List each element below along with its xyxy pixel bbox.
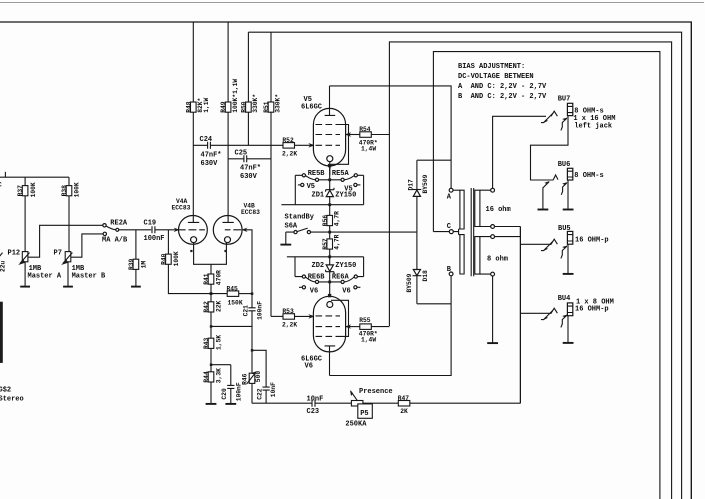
svg-text:C21: C21: [242, 305, 249, 317]
relay contact RE5A: [332, 170, 358, 181]
svg-text:1,1W: 1,1W: [203, 97, 210, 112]
resistor R39: [128, 230, 148, 286]
wire D18 to B: [417, 303, 451, 305]
svg-text:4,7R: 4,7R: [333, 234, 340, 249]
svg-text:Master A: Master A: [28, 273, 62, 281]
wire RE5 common: [319, 179, 341, 181]
switch S6A standby: [280, 214, 417, 245]
wire V6 plate to B: [330, 276, 452, 376]
svg-text:R56: R56: [322, 215, 329, 227]
jack BU6: [538, 161, 604, 209]
svg-text:10nF: 10nF: [307, 395, 324, 403]
wire stub left edge: [4, 172, 6, 177]
svg-text:22K: 22K: [216, 300, 223, 312]
resistor R41: [203, 264, 223, 293]
svg-text:ECC83: ECC83: [241, 209, 260, 216]
transformer secondary 16 ohm: [475, 190, 511, 226]
svg-text:R37: R37: [17, 185, 24, 197]
resistor R44: [203, 365, 223, 404]
svg-text:100nF: 100nF: [144, 235, 165, 243]
svg-text:ECC83: ECC83: [172, 205, 191, 212]
svg-text:R42: R42: [203, 301, 210, 313]
capacitor C24: [193, 136, 283, 168]
wire grid arrow V5: [308, 143, 315, 148]
svg-text:100K: 100K: [30, 182, 37, 197]
resistor R50: [241, 32, 260, 145]
relay contact RE2A: [102, 220, 128, 245]
svg-text:RE6A: RE6A: [332, 273, 350, 281]
capacitor C21: [242, 294, 263, 351]
svg-text:R47: R47: [398, 395, 410, 402]
svg-text:16 OHM-p: 16 OHM-p: [575, 306, 609, 314]
svg-text:ZD1: ZD1: [312, 191, 325, 199]
wire presence net: [252, 402, 520, 404]
svg-text:B AND C: 2,2V - 2,7V: B AND C: 2,2V - 2,7V: [458, 93, 547, 101]
ground P12: [24, 262, 26, 286]
node C: [449, 230, 453, 234]
diode D18 BY509: [406, 232, 429, 304]
resistor R51: [263, 32, 282, 316]
tube V4B ECC83: [213, 203, 260, 253]
svg-text:C20: C20: [221, 388, 228, 400]
svg-text:C23: C23: [307, 408, 320, 416]
resistor R40: [161, 230, 212, 294]
resistor R53: [271, 308, 314, 328]
svg-text:C25: C25: [235, 149, 248, 157]
svg-text:100K*1,1W: 100K*1,1W: [232, 79, 239, 113]
svg-text:47nF*: 47nF*: [240, 164, 261, 172]
zener ZD2 ZY150: [312, 257, 357, 282]
trimmer R46: [241, 350, 262, 403]
svg-text:1,5K: 1,5K: [216, 335, 223, 350]
svg-text:S6A: S6A: [285, 223, 298, 231]
svg-text:330K*: 330K*: [275, 94, 282, 113]
svg-text:MA A/B: MA A/B: [102, 237, 128, 245]
node junction RE6 center: [328, 281, 331, 284]
resistor R43: [203, 326, 223, 364]
svg-text:R57: R57: [322, 238, 329, 250]
svg-text:V6: V6: [342, 287, 350, 295]
svg-text:BU7: BU7: [558, 96, 571, 104]
svg-text:BY509: BY509: [422, 174, 429, 193]
text bias adjustment: [458, 63, 547, 101]
resistor R38: [61, 177, 81, 251]
svg-text:3,3K: 3,3K: [216, 368, 223, 383]
svg-text:C: C: [0, 182, 2, 189]
svg-text:ZY150: ZY150: [335, 191, 356, 199]
svg-text:R46: R46: [241, 373, 248, 385]
svg-text:Stereo: Stereo: [0, 396, 24, 404]
svg-text:10nF: 10nF: [270, 382, 277, 397]
svg-text:BY509: BY509: [406, 273, 413, 292]
node junction S6A/R56: [328, 231, 331, 234]
svg-text:P12: P12: [8, 250, 21, 258]
node U6 pin right: [342, 286, 360, 296]
svg-text:R48: R48: [185, 101, 192, 113]
svg-text:ZD2: ZD2: [312, 262, 325, 270]
wire P12 wiper to RE2A: [28, 225, 103, 257]
svg-text:100K: 100K: [173, 251, 180, 266]
capacitor C19: [144, 220, 177, 243]
resistor R42: [203, 294, 223, 327]
svg-text:A: A: [447, 194, 452, 202]
wire R37/R38 feed: [0, 176, 69, 178]
wire bus2 bias rail: [248, 32, 681, 499]
svg-text:R54: R54: [359, 126, 371, 133]
resistor R37: [17, 177, 37, 251]
resistor R45: [211, 285, 253, 306]
capacitor C22: [251, 349, 277, 403]
wire RE6 common: [319, 281, 341, 283]
resistor R56: [322, 205, 341, 239]
svg-text:R49: R49: [220, 101, 227, 113]
svg-text:R38: R38: [61, 185, 68, 197]
node V5 pin left: [298, 183, 315, 191]
svg-text:RE6B: RE6B: [308, 273, 326, 281]
node A: [449, 188, 453, 192]
svg-text:V6: V6: [310, 287, 318, 295]
wire R43/C20 link: [211, 364, 231, 366]
svg-text:6L6GC: 6L6GC: [301, 103, 322, 111]
node B: [449, 272, 453, 276]
ground 8 ohm tap: [492, 276, 494, 343]
wire feedback riser: [519, 227, 521, 404]
svg-text:C24: C24: [200, 136, 213, 144]
svg-text:C22: C22: [256, 388, 263, 400]
svg-text:100K: 100K: [74, 182, 81, 197]
svg-text:R44: R44: [203, 371, 210, 383]
wire secondary series link: [495, 227, 521, 404]
svg-text:2,2K: 2,2K: [282, 321, 297, 328]
svg-text:RE5A: RE5A: [332, 170, 350, 178]
svg-text:8 OHM-s: 8 OHM-s: [574, 172, 603, 180]
wire V4B grid to R45/C21: [251, 230, 252, 294]
capacitor 22u (cut at left edge): [0, 253, 7, 272]
svg-text:4,7R: 4,7R: [333, 211, 340, 226]
diode D17 BY509: [408, 160, 430, 232]
svg-text:Master B: Master B: [72, 273, 106, 281]
wire V4 cathode link: [194, 243, 227, 265]
wire BU7 feed: [493, 116, 546, 188]
svg-text:BIAS ADJUSTMENT:: BIAS ADJUSTMENT:: [458, 63, 525, 71]
svg-text:V6: V6: [305, 363, 313, 371]
resistor R57: [322, 234, 341, 256]
svg-text:630V: 630V: [201, 160, 219, 168]
svg-text:330K*: 330K*: [252, 94, 259, 113]
svg-text:R50: R50: [241, 101, 248, 113]
black bar cut element: [0, 302, 3, 363]
svg-text:Presence: Presence: [359, 388, 393, 396]
node secondary taps: [491, 188, 495, 192]
wire D17 to A: [417, 159, 451, 161]
svg-text:R51: R51: [263, 101, 270, 113]
tube V6 6L6GC: [301, 282, 351, 376]
svg-text:V5: V5: [307, 183, 315, 191]
svg-text:470R: 470R: [216, 270, 223, 285]
transformer core: [471, 188, 474, 276]
wire bus3 screen rail: [389, 42, 671, 499]
svg-text:250KA: 250KA: [345, 421, 367, 429]
svg-text:R39: R39: [128, 258, 135, 270]
resistor R52: [282, 137, 314, 157]
capacitor C23: [307, 395, 324, 416]
svg-text:16 ohm: 16 ohm: [486, 206, 511, 214]
potentiometer P7: [54, 250, 107, 281]
wire V5 plate to A: [330, 86, 452, 188]
svg-text:R52: R52: [282, 137, 294, 144]
ground R44: [206, 403, 217, 405]
svg-text:RE2A: RE2A: [110, 220, 128, 228]
ground P7: [67, 262, 69, 286]
relay contact RE6B: [302, 273, 325, 283]
jack BU7: [531, 96, 616, 181]
tube V5 6L6GC: [301, 86, 351, 175]
resistor R49: [220, 22, 239, 222]
wire P7 wiper to MA A/B: [71, 234, 103, 257]
tube V4A ECC83: [172, 198, 208, 252]
resistor R55 screen V6: [346, 317, 390, 343]
zener ZD1 ZY150: [312, 166, 357, 205]
svg-text:BU4: BU4: [558, 295, 571, 303]
wire bus4 plate B+ to center tap: [433, 52, 660, 499]
svg-text:100nF: 100nF: [257, 301, 264, 320]
transformer secondary 8 ohm: [475, 237, 508, 275]
svg-text:1MB: 1MB: [72, 265, 85, 273]
potentiometer P5: [345, 388, 392, 429]
jack BU5: [520, 225, 608, 274]
transformer primary winding: [453, 190, 464, 274]
wire R42/C21 link: [211, 325, 252, 327]
relay box ZD1/RE5: [281, 175, 363, 204]
relay contact RE5B: [302, 170, 325, 181]
svg-text:1,4W: 1,4W: [361, 146, 376, 153]
svg-text:P5: P5: [360, 410, 368, 418]
svg-text:P7: P7: [54, 250, 62, 258]
svg-text:150K: 150K: [228, 299, 243, 306]
node junction R41/R45: [210, 292, 213, 295]
svg-text:G$2: G$2: [0, 387, 11, 395]
capacitor C25: [228, 149, 271, 181]
ground C20: [225, 403, 236, 405]
svg-text:8 ohm: 8 ohm: [487, 255, 508, 263]
svg-text:ZY150: ZY150: [335, 262, 356, 270]
svg-text:D18: D18: [422, 270, 429, 282]
svg-text:1MB: 1MB: [29, 265, 42, 273]
svg-text:C19: C19: [144, 220, 157, 228]
svg-text:1M: 1M: [141, 261, 148, 269]
svg-text:R53: R53: [282, 308, 294, 315]
svg-text:R40: R40: [161, 253, 168, 265]
relay box ZD2/RE6: [287, 257, 364, 277]
relay contact RE6A: [332, 273, 358, 283]
svg-text:DC-VOLTAGE BETWEEN: DC-VOLTAGE BETWEEN: [458, 73, 534, 81]
wire RE2A to C19: [119, 229, 151, 231]
svg-text:22u: 22u: [0, 260, 7, 272]
svg-text:left jack: left jack: [574, 123, 612, 131]
node junction ZD2 top: [328, 255, 331, 258]
svg-text:630V: 630V: [240, 173, 258, 181]
potentiometer P12: [8, 250, 62, 281]
svg-text:R41: R41: [203, 273, 210, 285]
capacitor C20: [221, 365, 242, 404]
svg-text:1,4W: 1,4W: [361, 337, 376, 344]
svg-text:C: C: [447, 223, 451, 231]
resistor R48: [185, 22, 209, 222]
svg-text:R45: R45: [227, 285, 239, 292]
svg-text:500: 500: [255, 371, 262, 383]
ground R39: [131, 286, 141, 288]
svg-text:RE5B: RE5B: [308, 170, 326, 178]
jack BU4: [520, 295, 613, 343]
resistor R54 screen V5: [346, 126, 390, 152]
svg-text:2,2K: 2,2K: [282, 150, 297, 157]
svg-text:47nF*: 47nF*: [201, 151, 222, 159]
svg-text:StandBy: StandBy: [285, 214, 315, 222]
resistor R47: [398, 395, 410, 415]
node U6 pin left: [299, 286, 318, 296]
svg-text:R55: R55: [359, 317, 371, 324]
svg-text:D17: D17: [408, 179, 415, 191]
page border top: [0, 2, 704, 4]
svg-text:16 OHM-p: 16 OHM-p: [575, 236, 609, 244]
node V5 pin right: [344, 183, 360, 193]
svg-text:2K: 2K: [400, 408, 408, 415]
node junction dots ZD1: [328, 178, 331, 181]
svg-text:A AND C: 2,2V - 2,7V: A AND C: 2,2V - 2,7V: [458, 83, 547, 91]
wire grid arrow V6: [308, 314, 315, 319]
svg-text:R43: R43: [203, 337, 210, 349]
